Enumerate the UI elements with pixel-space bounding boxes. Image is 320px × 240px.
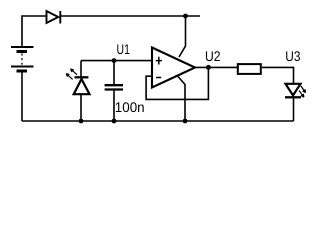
wire op-amp output	[195, 66, 237, 68]
photodiode D2	[74, 77, 90, 94]
svg-text:U1: U1	[117, 41, 131, 57]
LED D3	[285, 84, 301, 98]
wire op-amp V- pin	[178, 77, 185, 122]
wire battery- to bottom rail	[21, 73, 23, 122]
svg-text:U3: U3	[285, 48, 300, 64]
op-amp minus input marker	[156, 77, 161, 79]
LED D3 arrows	[299, 86, 306, 97]
op-amp	[152, 48, 195, 88]
diode D1	[47, 11, 61, 24]
wire top rail right of D1	[60, 15, 200, 17]
node junction photodiode/bottom rail	[79, 119, 84, 124]
wire node U1 horizontal	[81, 60, 152, 62]
wire LED to bottom rail	[293, 98, 295, 121]
wire op-amp V+ pin	[179, 16, 186, 57]
wire capacitor top	[113, 61, 115, 84]
node junction capacitor/bottom rail	[112, 119, 117, 124]
wire photodiode to bottom rail	[80, 94, 82, 121]
wire capacitor to bottom rail	[113, 91, 115, 121]
node U1 junction	[112, 58, 117, 63]
wire battery+ to top rail left segment	[22, 16, 47, 47]
svg-text:U2: U2	[205, 48, 221, 64]
resistor R1	[238, 64, 261, 74]
battery B1	[11, 47, 34, 71]
node junction V- / bottom rail	[183, 119, 188, 124]
wire bottom rail	[22, 120, 294, 122]
node junction top rail / op-amp V+	[183, 14, 188, 19]
op-amp plus input marker	[156, 57, 162, 65]
capacitor C1	[105, 85, 123, 89]
wire photodiode branch top	[80, 61, 82, 77]
svg-text:100n: 100n	[115, 99, 145, 115]
wire resistor to LED	[262, 67, 294, 83]
node U2 junction	[206, 65, 211, 70]
wire feedback output to inverting input	[146, 67, 208, 99]
photodiode D2 arrows	[66, 69, 77, 80]
